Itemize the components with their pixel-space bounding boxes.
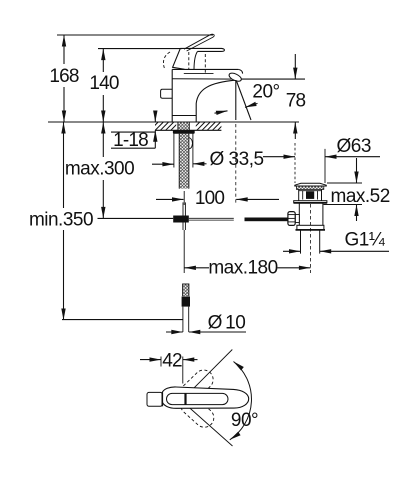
svg-text:168: 168 — [49, 66, 79, 87]
svg-text:max.52: max.52 — [331, 186, 390, 207]
svg-text:Ø 33,5: Ø 33,5 — [210, 149, 264, 170]
svg-text:1-18: 1-18 — [113, 130, 148, 151]
svg-text:min.350: min.350 — [29, 210, 93, 231]
svg-text:100: 100 — [195, 188, 225, 209]
svg-text:G1¼: G1¼ — [345, 230, 386, 251]
svg-text:78: 78 — [286, 91, 306, 112]
svg-text:max.180: max.180 — [208, 257, 277, 278]
svg-text:90°: 90° — [231, 410, 258, 431]
svg-text:42: 42 — [162, 351, 182, 372]
svg-text:Ø 10: Ø 10 — [208, 313, 246, 334]
svg-text:20°: 20° — [252, 82, 279, 103]
svg-text:Ø63: Ø63 — [337, 136, 371, 157]
svg-text:max.300: max.300 — [65, 159, 134, 180]
svg-text:140: 140 — [89, 73, 119, 94]
